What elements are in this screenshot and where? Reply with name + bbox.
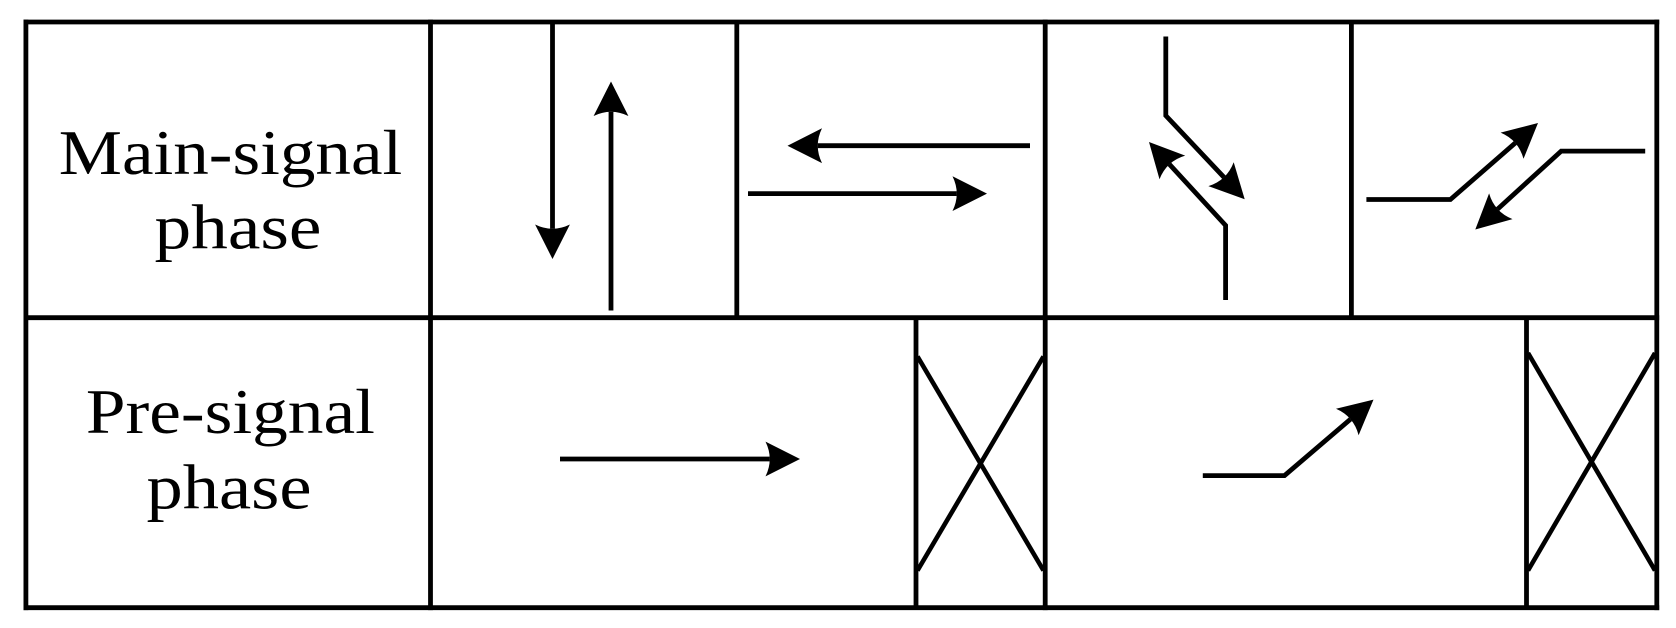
row1 cell1: upward through arrow [594,82,629,311]
horizontal row divider [24,315,1660,320]
row2 label: Pre-signal phase [86,377,375,523]
svg-text:Main-signal: Main-signal [59,118,403,188]
row1 cell3: bent arrow from top, turning down-right [1166,37,1245,200]
vertical divider after label column (full height) [428,20,433,611]
row1 cell4: bent arrow from left, turning up-right [1366,123,1538,200]
vertical divider row1 cell2/cell3 (full height) [1043,20,1048,611]
row1 cell2: leftward through arrow [788,128,1031,163]
table outer frame: top border [24,20,1660,25]
row2 cell2: bent right-turn arrow up-right [1203,400,1374,476]
table outer frame: left border [23,20,28,611]
X-box 1 diagonal TR-BL [918,357,1044,571]
vertical divider row1 cell3/cell4 [1349,22,1354,318]
svg-text:phase: phase [155,193,322,263]
table outer frame: bottom border [24,605,1660,610]
X-box 1 diagonal TL-BR [918,357,1044,571]
row2 cell1: rightward through arrow [560,442,800,477]
row1 cell3: bent arrow from bottom, turning up-left [1149,142,1226,300]
row1 cell1: downward through arrow [535,20,570,259]
vertical divider row1 cell1/cell2 [734,22,739,318]
X-box 2 diagonal TL-BR [1528,353,1655,571]
row2 X-box 1 left border [914,318,919,608]
row1 cell2: rightward through arrow [748,176,987,211]
X-box 2 diagonal TR-BL [1528,353,1655,571]
svg-text:Pre-signal: Pre-signal [86,377,375,447]
table outer frame: right border [1654,20,1659,611]
row2 X-box 2 left border [1524,318,1529,608]
svg-text:phase: phase [147,453,312,523]
row1 label: Main-signal phase [59,118,403,263]
row1 cell4: bent arrow from right, turning down-left [1475,151,1645,229]
